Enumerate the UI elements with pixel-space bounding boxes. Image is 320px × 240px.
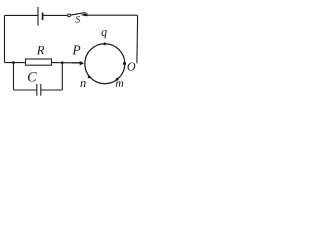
wire left vertical — [4, 15, 6, 62]
label C — [28, 72, 37, 81]
label R — [37, 46, 45, 54]
label S — [75, 16, 80, 23]
resistor R1 box — [26, 59, 52, 65]
capacitor loop right vertical — [61, 63, 63, 90]
label n — [80, 81, 85, 87]
wire R to arrow — [52, 62, 73, 64]
ring point n dot — [88, 76, 91, 79]
current arrow head at ring point P — [80, 61, 84, 65]
switch blade arrowhead — [80, 13, 87, 16]
current arrow shaft — [72, 62, 80, 63]
ring conductor — [85, 44, 125, 84]
capacitor loop bottom-left wire — [14, 89, 37, 91]
ring point m dot — [116, 78, 119, 81]
wire main horizontal left of R — [5, 62, 26, 64]
wire battery to switch — [44, 14, 68, 16]
junction dot right — [61, 61, 64, 64]
capacitor C left plate — [36, 84, 38, 96]
capacitor loop bottom-right wire — [41, 89, 63, 91]
battery long plate — [37, 7, 39, 26]
ring point q dot — [103, 42, 106, 45]
wire switch to top-right corner — [84, 14, 138, 16]
wire right vertical — [136, 15, 139, 63]
capacitor C right plate — [40, 84, 42, 96]
ring point near O dot — [123, 62, 126, 65]
switch blade — [71, 13, 86, 16]
label q — [102, 30, 107, 38]
label P — [72, 46, 80, 55]
label m — [116, 81, 123, 86]
label O — [128, 63, 136, 71]
capacitor loop left vertical — [13, 63, 15, 90]
switch pivot circle — [68, 14, 71, 17]
battery short plate — [42, 13, 44, 21]
junction dot left — [12, 61, 15, 64]
wire top-left segment — [5, 14, 38, 16]
